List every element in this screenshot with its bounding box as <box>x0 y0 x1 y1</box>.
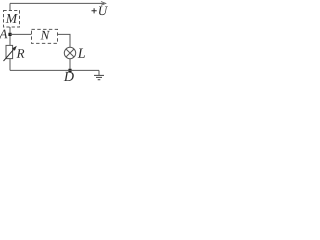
label +U <box>92 6 108 15</box>
label L <box>78 49 85 58</box>
wire R to bottom rail <box>9 59 11 71</box>
wire lamp to node D <box>69 59 71 71</box>
node A <box>8 33 11 36</box>
ground <box>94 75 104 79</box>
lamp L <box>64 47 75 58</box>
label A <box>0 30 7 39</box>
wire to ground <box>98 70 100 75</box>
wire bottom rail <box>10 69 99 71</box>
rheostat R (box) <box>6 45 13 58</box>
box N (dashed) <box>32 29 58 43</box>
wire M to node A <box>9 27 11 45</box>
arrowhead +U supply <box>101 2 106 6</box>
label D <box>64 72 74 81</box>
rheostat arrow <box>4 46 17 61</box>
motor M (dashed box) <box>4 11 20 28</box>
node D <box>68 69 71 72</box>
wire node A to N <box>10 33 32 35</box>
wire N to lamp <box>58 34 71 47</box>
wire from top rail to M <box>9 3 11 10</box>
wire top rail <box>10 2 104 4</box>
label R <box>17 49 25 58</box>
